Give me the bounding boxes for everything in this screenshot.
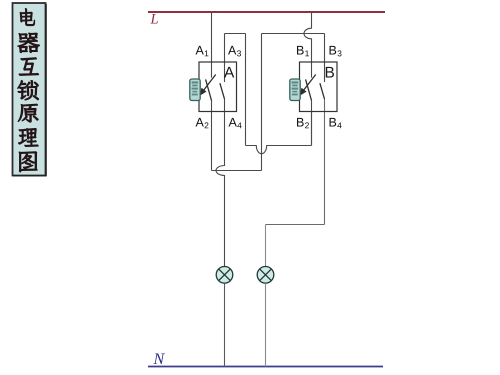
pin label B4 <box>330 118 342 128</box>
banner character 互 <box>19 58 39 76</box>
banner character 电 <box>20 9 35 26</box>
wire drop to lamp HL2 <box>265 225 267 267</box>
banner character 锁 <box>18 80 39 100</box>
lamp HL2 <box>257 267 274 284</box>
wire B4 down <box>324 99 326 225</box>
wire B2 riser <box>311 112 313 146</box>
contact B actuation arrow <box>300 75 316 95</box>
banner character 原 <box>18 104 38 122</box>
label L <box>150 14 158 23</box>
wire B2 down <box>311 101 313 146</box>
wire B3 contact stub <box>324 62 326 82</box>
lamp HL1 <box>216 267 233 284</box>
wire lamp HL2 to N <box>265 283 267 366</box>
contact B3-B4 blade <box>320 83 325 99</box>
contact A actuation arrow <box>200 75 216 95</box>
wire B3 drop <box>324 34 326 63</box>
wire A2 down <box>211 101 213 171</box>
wire A3 contact stub <box>224 62 226 82</box>
banner character 器 <box>18 33 40 53</box>
wire A3 top jog <box>225 33 246 35</box>
pin label A3 <box>228 46 241 56</box>
contactor box A <box>199 62 237 112</box>
contactor box B <box>300 62 338 112</box>
label A <box>224 67 234 78</box>
pin label B1 <box>297 46 309 56</box>
pin label A4 <box>229 118 242 128</box>
banner character 理 <box>18 128 38 146</box>
wire interlock bottom run with hop under node <box>246 146 312 154</box>
wire L to B1 with crossover hop <box>304 12 311 78</box>
pin label B3 <box>330 46 342 56</box>
contact B1-B2 blade <box>306 79 312 100</box>
label N <box>153 354 165 364</box>
contact A1-A2 blade <box>206 79 212 100</box>
wire L to A1 <box>211 12 213 78</box>
wire interlock left drop <box>245 34 247 146</box>
label B <box>326 67 334 78</box>
title banner box <box>13 3 46 176</box>
coil B <box>290 79 300 101</box>
wire A4 down with crossover hop <box>216 99 225 266</box>
wire node drop A2-to-B3 <box>261 34 263 171</box>
wire A2 junction horizontal <box>212 170 262 172</box>
L phase bus line <box>148 11 385 13</box>
pin label B2 <box>297 118 309 128</box>
N neutral bus line <box>148 366 383 368</box>
banner character 图 <box>19 152 37 172</box>
wire A3 riser <box>224 34 226 63</box>
pin label A2 <box>196 118 209 128</box>
contact A3-A4 blade <box>220 83 225 99</box>
wire top link to B3 <box>262 33 325 35</box>
wire lamp HL1 to N <box>224 283 226 366</box>
banner shadow edge <box>13 4 46 176</box>
wire B4 elbow <box>266 224 325 226</box>
pin label A1 <box>196 46 209 56</box>
coil A <box>190 79 200 101</box>
